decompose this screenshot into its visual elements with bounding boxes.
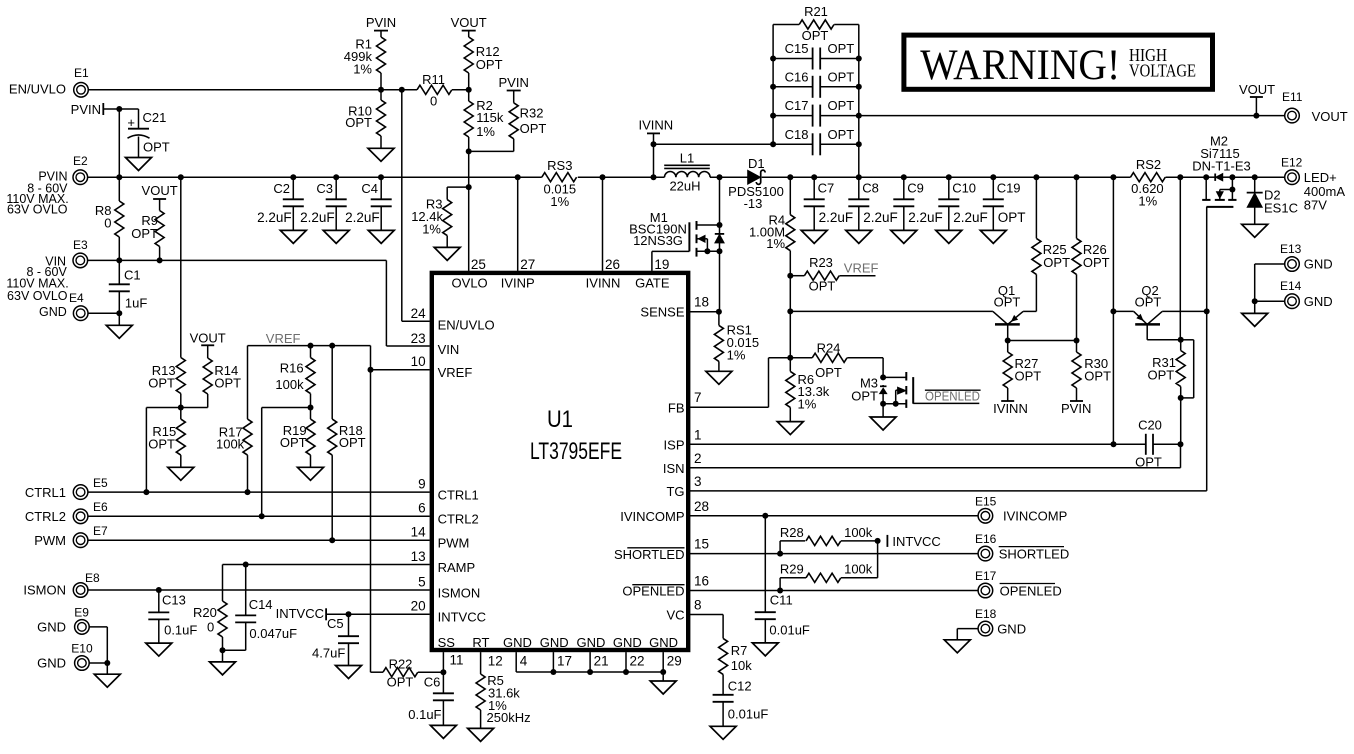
ground R5 [468,728,494,741]
svg-text:1uF: 1uF [125,296,147,311]
svg-text:PVIN: PVIN [1061,401,1091,416]
pin 26 IVINN [586,177,621,291]
svg-text:R23: R23 [809,255,833,270]
svg-text:2.2uF: 2.2uF [300,210,335,225]
resistor R29 [780,541,878,591]
capacitor C10 [938,177,987,230]
svg-text:3: 3 [694,474,702,489]
wire IVINCOMP pin 28 line [690,513,978,519]
ground RS1 [706,371,732,384]
terminal E4 GND [39,291,88,321]
pin 17 GND [540,635,572,672]
inductor L1 [664,150,710,193]
svg-text:63V OVLO: 63V OVLO [7,289,68,303]
terminal E9 GND [37,606,89,635]
svg-text:2: 2 [694,451,702,466]
svg-text:9: 9 [418,476,426,491]
svg-text:E9: E9 [74,606,89,620]
svg-text:19: 19 [654,257,669,272]
svg-text:OPT: OPT [994,295,1021,310]
resistor R7 [719,638,753,694]
resistor R18 [328,346,366,541]
svg-text:E12: E12 [1281,156,1303,170]
svg-text:OPT: OPT [143,140,170,155]
svg-text:63V OVLO: 63V OVLO [7,202,68,216]
svg-text:D1: D1 [748,156,765,171]
svg-text:IVINCOMP: IVINCOMP [1003,509,1067,524]
svg-text:100k: 100k [216,437,245,452]
diode D2 ES1C [1247,177,1298,224]
transistor Q1 (OPT) [790,283,1036,340]
svg-text:15: 15 [694,537,709,552]
svg-text:8: 8 [694,598,702,613]
ground C21 [126,158,152,171]
resistor R31 [1147,337,1185,401]
pin 25 OVLO [452,257,488,291]
wire cap block left rail [770,25,776,148]
svg-text:OPT: OPT [1083,255,1110,270]
ground C8 [846,230,872,243]
svg-text:16: 16 [694,574,709,589]
svg-text:C12: C12 [728,679,752,694]
terminal E12 LED+ [1281,156,1345,213]
diode M2 body [1206,174,1232,181]
resistor R24 [790,341,883,380]
terminal E6 CTRL2 [25,500,108,524]
svg-text:17: 17 [557,654,572,669]
svg-text:SHORTLED: SHORTLED [999,547,1070,562]
terminal E5 CTRL1 [25,476,108,500]
svg-text:OPT: OPT [280,435,307,450]
pin 2 ISN [663,451,702,476]
svg-text:R7: R7 [731,643,748,658]
pin 3 TG [666,474,701,499]
svg-text:E5: E5 [93,476,108,490]
svg-text:1%: 1% [766,236,785,251]
node PVIN tap (R1) [366,15,396,37]
svg-text:C20: C20 [1138,417,1162,432]
wire VOUT line to E11 [859,113,1285,119]
svg-text:E3: E3 [73,238,88,252]
wire EN/UVLO to pin 24 [399,87,430,321]
resistor R10 [345,87,385,149]
capacitor C18 [773,127,859,156]
resistor R20 [193,601,227,662]
svg-text:C8: C8 [862,181,879,196]
svg-text:87V: 87V [1304,198,1327,213]
svg-text:OPENLED: OPENLED [1000,584,1062,599]
capacitor C4 [345,177,392,230]
node PVIN tap (C21) [71,102,139,177]
resistor R2 [464,90,504,152]
svg-text:OPT: OPT [809,278,836,293]
svg-text:SHORTLED: SHORTLED [614,547,685,562]
pin 9 CTRL1 [418,476,479,502]
capacitor C16 [773,69,859,98]
pin 24 EN/UVLO [411,306,495,332]
capacitor C7 [804,177,853,230]
svg-text:VIN: VIN [438,342,460,357]
svg-text:PWM: PWM [438,536,470,551]
wire E9/E10 to ground [89,627,110,674]
svg-text:ISMON: ISMON [23,583,66,598]
svg-text:OPT: OPT [1043,255,1070,270]
svg-text:R11: R11 [422,72,445,87]
wire D1 to RS2 (VOUT rail) [762,174,1130,180]
svg-text:10k: 10k [731,658,752,673]
svg-text:E4: E4 [69,291,84,305]
ground C5 [336,666,362,679]
wire R13/R15 node to CTRL1 [146,405,183,493]
svg-text:CTRL1: CTRL1 [438,487,479,502]
svg-text:E11: E11 [1282,90,1303,104]
resistor R3 [411,187,469,247]
op-amp U1 LT3795EFE (IC body) [432,273,688,650]
svg-text:IVINCOMP: IVINCOMP [620,509,684,524]
svg-text:GATE: GATE [635,276,670,291]
svg-text:-13: -13 [744,196,763,211]
wire OPENLED pin 16 line [690,588,978,594]
svg-text:ISP: ISP [664,438,685,453]
svg-text:24: 24 [411,306,427,321]
svg-text:C11: C11 [770,592,793,607]
terminal E7 PWM [34,524,108,548]
wire ISMON line [88,587,430,593]
wire cap block right rail [856,25,862,178]
resistor R12 [464,37,502,93]
svg-text:1%: 1% [353,62,372,77]
diode D1 PDS5100 [728,156,784,211]
pin 28 IVINCOMP [620,499,709,524]
wire E4 [88,310,122,325]
svg-text:1: 1 [694,427,702,442]
svg-text:RT: RT [472,635,489,650]
terminal E13 GND [1280,242,1333,272]
ground R15 [168,467,194,480]
capacitor C20 [1135,417,1183,469]
svg-text:GND: GND [503,635,532,650]
svg-text:OPT: OPT [476,57,503,72]
wire E13/E14 to ground [1252,264,1285,313]
ground D2 [1242,224,1268,237]
svg-text:0.01uF: 0.01uF [728,707,769,722]
svg-text:VOLTAGE: VOLTAGE [1129,61,1196,81]
svg-text:LED+: LED+ [1304,170,1337,185]
svg-text:OPT: OPT [815,365,842,380]
svg-text:0.01uF: 0.01uF [769,622,810,637]
resistor R1 [344,37,386,90]
svg-text:0.1uF: 0.1uF [164,623,197,638]
svg-text:1%: 1% [1138,193,1157,208]
svg-text:R28: R28 [780,525,804,540]
pin 20 INTVCC [411,599,486,625]
svg-text:12NS3G: 12NS3G [633,233,683,248]
transistor Q2 (OPT) [1110,283,1209,340]
svg-text:14: 14 [411,525,427,540]
svg-text:2.2uF: 2.2uF [345,210,380,225]
svg-text:ISMON: ISMON [438,585,481,600]
terminal E3 VIN [6,238,88,303]
ground C3 [323,230,349,243]
ground C4 [368,230,394,243]
ground R6 [777,422,803,435]
capacitor C15 [773,41,859,70]
node IVINN tap (R27) [993,401,1028,416]
pin 15 SHORTLED [614,537,709,562]
pin 7 FB [668,390,702,415]
svg-text:5: 5 [418,574,426,589]
svg-text:E17: E17 [975,569,997,583]
svg-text:VREF: VREF [438,365,473,380]
svg-text:R24: R24 [817,341,841,356]
svg-text:ISN: ISN [663,461,685,476]
pin 21 GND [577,635,609,672]
svg-text:E7: E7 [93,524,108,538]
wire GND bus [516,669,666,681]
svg-text:VREF: VREF [844,261,879,276]
svg-text:1%: 1% [727,348,746,363]
resistor R5 [476,652,530,728]
svg-text:GND: GND [613,635,642,650]
svg-text:28: 28 [694,499,709,514]
svg-text:E6: E6 [93,500,108,514]
capacitor C6 [408,652,454,725]
svg-text:VREF: VREF [266,331,301,346]
resistor R26 [1072,177,1110,340]
terminal E18 GND [975,607,1026,636]
svg-text:0.047uF: 0.047uF [249,626,297,641]
terminal E2 PVIN [6,154,88,216]
resistor R13 [148,358,185,408]
svg-text:1%: 1% [550,194,569,209]
svg-text:IVINP: IVINP [501,276,535,291]
svg-text:C19: C19 [997,181,1021,196]
svg-text:C13: C13 [162,592,186,607]
resistor R14 [181,358,241,408]
svg-text:1%: 1% [798,396,817,411]
svg-text:ES1C: ES1C [1264,200,1298,215]
pin 8 VC [666,598,701,623]
svg-text:E1: E1 [74,66,89,80]
pin 14 PWM [411,525,470,551]
ground C13 [146,643,172,656]
svg-text:VOUT: VOUT [1312,109,1348,124]
resistor R25 [1032,177,1070,311]
svg-text:1%: 1% [476,124,495,139]
resistor R21 [773,4,859,43]
node IVINN tap [638,117,673,180]
svg-text:OPT: OPT [828,98,855,113]
pin 11 SS [438,635,464,668]
svg-text:LT3795EFE: LT3795EFE [530,438,622,465]
svg-text:GND: GND [649,635,678,650]
svg-text:OPT: OPT [339,435,366,450]
wire Q1 base node [1005,338,1080,344]
svg-text:GND: GND [997,621,1026,636]
svg-text:R21: R21 [804,4,828,19]
svg-text:OPT: OPT [214,375,241,390]
node PVIN tap (R32) [499,75,529,103]
svg-text:7: 7 [694,390,702,405]
node INTVCC tap (R28) [887,534,940,549]
svg-text:18: 18 [694,295,709,310]
svg-text:20: 20 [411,599,426,614]
svg-text:L1: L1 [680,150,694,165]
wire R31 to C20 [1180,398,1182,444]
wire FB pin 7 elbow [690,358,790,408]
svg-text:4: 4 [520,654,528,669]
svg-text:27: 27 [520,257,535,272]
svg-text:EN/UVLO: EN/UVLO [9,82,66,97]
svg-text:E2: E2 [73,154,88,168]
svg-text:C16: C16 [785,69,809,84]
svg-text:OVLO: OVLO [452,276,488,291]
svg-text:GND: GND [1304,294,1333,309]
resistor R6 [786,358,830,422]
svg-text:C5: C5 [327,616,344,631]
svg-text:11: 11 [450,653,464,668]
pin 12 RT [472,635,502,669]
svg-text:C1: C1 [124,268,141,283]
svg-text:0: 0 [104,216,111,231]
wire RAMP to R20/C14 [223,562,430,602]
svg-text:WARNING!: WARNING! [920,42,1120,89]
wire IVINN to cap block [654,143,774,145]
svg-text:INTVCC: INTVCC [438,610,486,625]
svg-text:21: 21 [594,654,609,669]
ground C6 [430,725,456,738]
pin 22 GND [613,635,645,672]
resistor R8 [95,177,124,260]
svg-text:PVIN: PVIN [366,15,396,30]
svg-text:INTVCC: INTVCC [276,606,324,621]
svg-text:R29: R29 [780,562,804,577]
resistor RS1 [714,312,759,372]
ground C11 [752,643,778,656]
resistor R11 [381,72,469,109]
capacitor C3 [300,177,347,230]
svg-text:0: 0 [207,619,214,634]
warning label box [904,35,1213,89]
wire M3 source to ground [882,404,884,417]
wire rail to Q2 emitter / C20 [1112,177,1114,444]
net label OPENLED (M3 gate) [925,389,981,404]
terminal E11 VOUT [1282,90,1348,124]
svg-text:RS2: RS2 [1136,157,1161,172]
resistor R22 [371,657,444,690]
transistor M3 (OPT) [851,358,979,408]
ground E4/C1 [106,325,132,338]
svg-text:R20: R20 [193,605,217,620]
node INTVCC tap [276,606,430,621]
svg-text:2.2uF: 2.2uF [953,210,988,225]
wire VC pin 8 to R7 [690,615,723,639]
svg-text:VOUT: VOUT [451,15,487,30]
wire E1 to R11 node [88,89,381,91]
capacitor C2 [257,177,304,230]
svg-text:C14: C14 [249,597,273,612]
svg-text:C15: C15 [785,41,809,56]
wire R13 top from PVIN rail [180,177,182,357]
wire VREF to pin 10 and R22 [368,346,430,673]
svg-text:25: 25 [471,257,486,272]
svg-text:C18: C18 [785,127,809,142]
wire ISP pin 1 line [690,441,1146,447]
ground E13/E14 [1242,313,1268,326]
svg-text:OPT: OPT [1084,368,1111,383]
resistor R17 [216,419,252,492]
pin 23 VIN [411,331,460,357]
ground GND bus [650,681,676,694]
terminal E10 GND [37,641,93,670]
svg-text:C6: C6 [424,675,441,690]
svg-text:OPENLED: OPENLED [622,584,684,599]
ground M3 [870,417,896,430]
svg-text:C3: C3 [316,181,333,196]
ground R10 [368,148,394,161]
ground C12 [710,726,736,739]
svg-text:GND: GND [37,620,66,635]
pin 4 GND [503,635,532,672]
resistor R19 [280,408,315,468]
resistor R23 [787,255,875,293]
ground C9 [891,230,917,243]
pin 13 RAMP [411,549,476,575]
svg-text:100k: 100k [844,525,873,540]
svg-text:R22: R22 [389,657,413,672]
svg-text:2.2uF: 2.2uF [863,210,898,225]
svg-text:E13: E13 [1280,242,1302,256]
svg-text:OPT: OPT [828,69,855,84]
wire FB node vertical [787,276,793,361]
svg-text:0: 0 [430,94,437,109]
svg-text:115k: 115k [476,110,504,125]
svg-text:22uH: 22uH [669,178,700,193]
terminal E15 IVINCOMP [975,494,1067,523]
svg-text:VOUT: VOUT [190,331,226,346]
capacitor C14 [223,565,298,651]
svg-text:VOUT: VOUT [1239,82,1275,97]
svg-text:GND: GND [1304,257,1333,272]
resistor RS2 [1113,157,1206,209]
wire RS2 node vertical [1179,177,1181,340]
svg-text:22: 22 [630,654,645,669]
svg-text:12: 12 [488,654,503,669]
svg-text:E16: E16 [975,532,997,546]
ground E9/E10 [94,674,120,687]
ground R19 [298,467,324,480]
svg-text:PWM: PWM [34,533,66,548]
wire ISN pin 2 line [690,444,1181,468]
wire PVIN rail [88,174,542,180]
wire CTRL2 line [88,513,430,519]
svg-text:U1: U1 [547,406,573,433]
resistor R15 [148,408,185,468]
svg-text:OPT: OPT [148,437,175,452]
ground C19 [980,230,1006,243]
svg-text:RS3: RS3 [547,158,572,173]
svg-text:OPT: OPT [998,210,1026,225]
svg-text:INTVCC: INTVCC [892,534,940,549]
terminal E17 OPENLED [975,569,1062,599]
wire L1 to D1 [710,174,748,180]
pin 10 VREF [411,354,473,380]
svg-text:C7: C7 [818,181,835,196]
svg-text:OPT: OPT [387,675,414,690]
wire R16/R19 node to CTRL2 [262,405,314,517]
svg-text:SENSE: SENSE [640,305,684,320]
capacitor C8 [848,177,897,230]
